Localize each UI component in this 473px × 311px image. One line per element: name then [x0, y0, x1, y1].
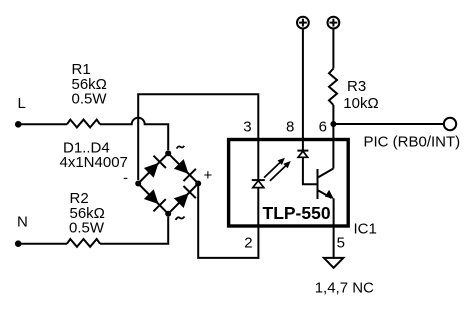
svg-text:0.5W: 0.5W — [69, 219, 105, 236]
bridge rectifier D1..D4 — [138, 153, 198, 214]
label D1..D4 — [60, 139, 128, 171]
wire LED to pin 2 — [257, 188, 259, 226]
wire bridge minus up and over to pin 3 — [138, 94, 258, 180]
svg-text:TLP-550: TLP-550 — [263, 203, 331, 223]
resistor R3 — [329, 69, 337, 106]
svg-text:6: 6 — [319, 118, 327, 135]
node bridge AC bottom — [165, 211, 171, 217]
svg-text:1,4,7 NC: 1,4,7 NC — [315, 280, 374, 297]
svg-text:PIC (RB0/INT): PIC (RB0/INT) — [364, 133, 461, 150]
wire bridge plus to pin 2 — [198, 187, 258, 258]
svg-text:N: N — [17, 214, 28, 231]
svg-text:3: 3 — [243, 118, 251, 135]
svg-text:IC1: IC1 — [354, 220, 377, 237]
ground — [324, 258, 343, 268]
label R2 value — [69, 190, 105, 236]
svg-text:+: + — [204, 167, 213, 184]
transistor (photo) — [318, 169, 334, 200]
wire +V left to pin 8 — [302, 29, 304, 151]
wire node 6 to PIC terminal — [333, 123, 443, 125]
svg-text:5: 5 — [337, 235, 345, 252]
wire R1 to bridge AC1 with hop over — [100, 118, 168, 150]
wire N to R2 — [19, 243, 67, 245]
svg-text:10kΩ: 10kΩ — [343, 95, 378, 112]
node L terminal — [15, 121, 22, 128]
wire emitter to pin 5 and ground — [333, 198, 335, 258]
power symbol +V right — [328, 17, 340, 29]
node pin 6 junction — [330, 121, 336, 127]
wire L to R1 — [19, 123, 67, 125]
optocoupler IC1 box — [229, 140, 349, 227]
svg-text:R3: R3 — [347, 78, 366, 95]
node bridge plus — [195, 181, 201, 187]
node bridge minus — [135, 181, 141, 187]
svg-text:2: 2 — [244, 234, 252, 251]
label R1 value — [72, 61, 108, 107]
svg-text:8: 8 — [286, 118, 294, 135]
wire R2 to bridge AC2 — [100, 217, 168, 244]
wire photodiode to transistor base — [303, 157, 317, 184]
node N terminal — [15, 240, 22, 247]
wire +V right to R3 — [332, 29, 334, 69]
svg-text:-: - — [123, 170, 128, 187]
power symbol +V left — [297, 17, 309, 29]
svg-text:L: L — [18, 95, 26, 112]
label ~ bottom — [176, 217, 185, 220]
diode D2 (AC1 to plus) — [168, 153, 198, 183]
PIC terminal — [444, 118, 456, 130]
light emission arrows — [264, 158, 291, 181]
resistor R1 — [67, 120, 100, 128]
svg-text:0.5W: 0.5W — [72, 91, 108, 108]
label R3 value — [343, 78, 378, 112]
photodiode inside optocoupler — [297, 151, 308, 158]
svg-text:4x1N4007: 4x1N4007 — [60, 154, 128, 171]
node bridge AC top — [165, 150, 171, 156]
diode D3 (minus to AC2) — [138, 184, 168, 214]
wire R3 to node 6 — [332, 105, 334, 124]
wire pin 3 to LED anode — [257, 138, 259, 180]
diode D1 (minus to AC1) — [138, 153, 168, 183]
wire node 6 to transistor collector — [332, 124, 334, 169]
resistor R2 — [67, 239, 100, 247]
label ~ top — [177, 146, 185, 149]
diode D4 (AC2 to plus) — [168, 184, 198, 214]
LED inside optocoupler — [252, 180, 265, 188]
